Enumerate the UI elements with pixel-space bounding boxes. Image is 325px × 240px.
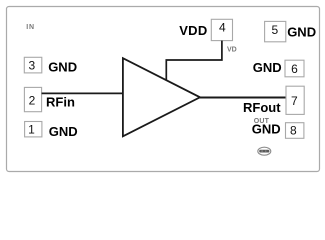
wire output from amplifier to pin 7 <box>199 97 286 99</box>
svg-text:8: 8 <box>290 123 297 137</box>
svg-text:GND: GND <box>48 59 77 74</box>
svg-text:RFout: RFout <box>243 100 281 115</box>
amplifier A1 <box>123 58 200 136</box>
svg-text:7: 7 <box>291 94 298 108</box>
svg-text:GND: GND <box>252 122 281 137</box>
svg-text:GND: GND <box>49 124 78 139</box>
svg-text:3: 3 <box>29 58 36 72</box>
pin 6 <box>285 60 304 77</box>
wire VDD from pin 4 to amplifier <box>166 41 222 81</box>
svg-text:IN: IN <box>26 24 34 31</box>
svg-text:GND: GND <box>287 25 316 40</box>
svg-text:4: 4 <box>219 21 226 35</box>
pin 3 <box>24 57 42 73</box>
pin 4 <box>211 19 232 40</box>
wire input from pin 2 to amplifier <box>42 92 124 94</box>
manufacturer logo <box>258 147 271 155</box>
pin 8 <box>286 123 304 139</box>
svg-text:RFin: RFin <box>46 94 75 109</box>
svg-text:5: 5 <box>272 23 279 37</box>
svg-text:2: 2 <box>29 94 36 108</box>
pin 5 <box>265 21 286 41</box>
svg-text:6: 6 <box>291 62 298 76</box>
svg-text:VDD: VDD <box>179 23 207 38</box>
pin 1 <box>25 122 42 137</box>
pin 2 <box>24 87 41 111</box>
svg-text:GND: GND <box>253 60 282 75</box>
svg-text:1: 1 <box>28 123 35 137</box>
pin 7 <box>286 86 304 114</box>
svg-text:VD: VD <box>227 46 237 53</box>
